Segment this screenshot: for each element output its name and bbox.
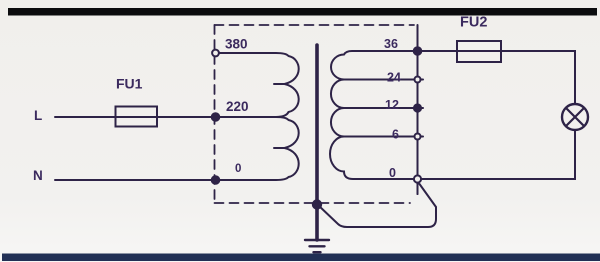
svg-text:L: L (34, 108, 42, 123)
svg-text:FU1: FU1 (116, 76, 143, 92)
svg-text:24: 24 (387, 71, 401, 85)
svg-text:0: 0 (389, 166, 396, 180)
svg-text:36: 36 (384, 37, 398, 51)
svg-text:N: N (33, 168, 43, 183)
svg-text:380: 380 (225, 37, 248, 52)
svg-text:FU2: FU2 (460, 15, 487, 31)
svg-text:12: 12 (385, 98, 399, 112)
svg-text:0: 0 (235, 163, 241, 175)
svg-text:220: 220 (226, 99, 249, 114)
svg-text:6: 6 (392, 128, 399, 142)
